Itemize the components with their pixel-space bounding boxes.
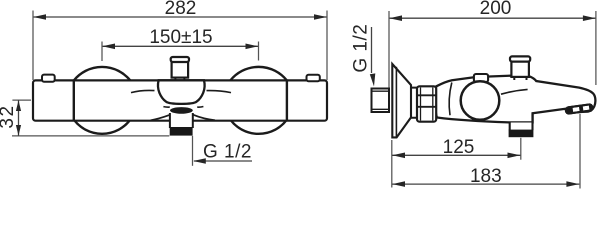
G 1/2 label (right view) leader line	[371, 27, 373, 73]
dimension 200 extension lines	[389, 11, 596, 88]
outlet cylinder white band	[170, 107, 193, 128]
dimension 125 arrowheads	[392, 153, 520, 159]
spout blend contour	[501, 89, 528, 94]
dimension 32 extension lines	[12, 100, 169, 136]
dimension 282 arrowheads	[33, 14, 327, 20]
ribbed nut	[417, 86, 436, 121]
dimension 32 line	[18, 100, 20, 136]
faucet body bar	[33, 80, 327, 120]
knob circle (side view)	[461, 81, 500, 120]
dimension 32 arrowheads	[16, 100, 21, 135]
dimension 183 extension line right	[579, 114, 581, 189]
svg-text:G 1/2: G 1/2	[350, 24, 371, 73]
left knob outer edge arc over bar	[73, 80, 75, 121]
left knob (front view squircle)	[74, 67, 131, 134]
cone-body junction contour	[449, 83, 452, 116]
G 1/2 label leader line	[194, 160, 252, 162]
dimension 282 extension lines	[33, 11, 327, 81]
dimension 183 arrowheads	[392, 181, 579, 187]
body + spout outline (side view)	[435, 76, 595, 123]
right knob (front view squircle)	[230, 67, 287, 134]
dimension 125 line	[392, 154, 521, 156]
dimension 150±15 arrowheads	[102, 44, 258, 50]
dimension 150±15 extension ticks	[102, 42, 259, 62]
dimension 125 extension line left (shared with 183)	[391, 140, 393, 188]
fillet bar-to-outlet left	[151, 115, 170, 120]
dimension 200 line	[389, 17, 596, 19]
right knob outer edge arc over bar	[286, 80, 288, 121]
top shower connector (side view)	[510, 56, 530, 80]
wall nipple G1/2 (side view)	[372, 89, 390, 113]
svg-text:200: 200	[480, 0, 512, 19]
svg-text:282: 282	[165, 0, 197, 19]
left button on bar	[42, 75, 55, 82]
fillet bar-to-outlet right	[193, 115, 215, 121]
dimension 183 line	[392, 183, 579, 185]
svg-text:150±15: 150±15	[149, 27, 212, 48]
right button on bar	[307, 75, 320, 81]
button (side view)	[474, 74, 488, 82]
bar contour line right of bowl	[207, 91, 232, 93]
top shower connector (front view)	[171, 57, 189, 80]
G 1/2 right leader arrowhead	[370, 73, 376, 86]
nut rib lines	[417, 88, 436, 121]
svg-text:125: 125	[443, 137, 475, 158]
dimension 125 extension line right	[520, 138, 522, 160]
svg-text:G 1/2: G 1/2	[203, 141, 252, 162]
outlet top dark ring	[170, 107, 193, 114]
spout lip right	[197, 106, 203, 109]
bottom hose connector (side view) white part	[510, 123, 533, 130]
svg-text:183: 183	[470, 166, 502, 187]
aerator at spout tip	[565, 104, 592, 114]
pipe between escutcheon and nut	[411, 88, 417, 118]
dimension 200 arrowheads	[389, 15, 596, 21]
escutcheon wall plate	[392, 64, 411, 137]
bottom hose connector black thread band	[509, 130, 534, 138]
G 1/2 leader arrowhead	[193, 158, 206, 164]
dimension 282 line	[33, 16, 327, 18]
svg-text:32: 32	[0, 104, 18, 128]
escutcheon inner edge	[395, 67, 397, 137]
spout lip left	[163, 106, 169, 109]
spout bowl (front view)	[158, 80, 205, 104]
bar contour line left of bowl	[131, 90, 155, 92]
G 1/2 label (left view) extension line	[192, 136, 194, 166]
dimension 150±15 line	[102, 45, 259, 47]
outlet G1/2 black thread band	[170, 127, 193, 136]
